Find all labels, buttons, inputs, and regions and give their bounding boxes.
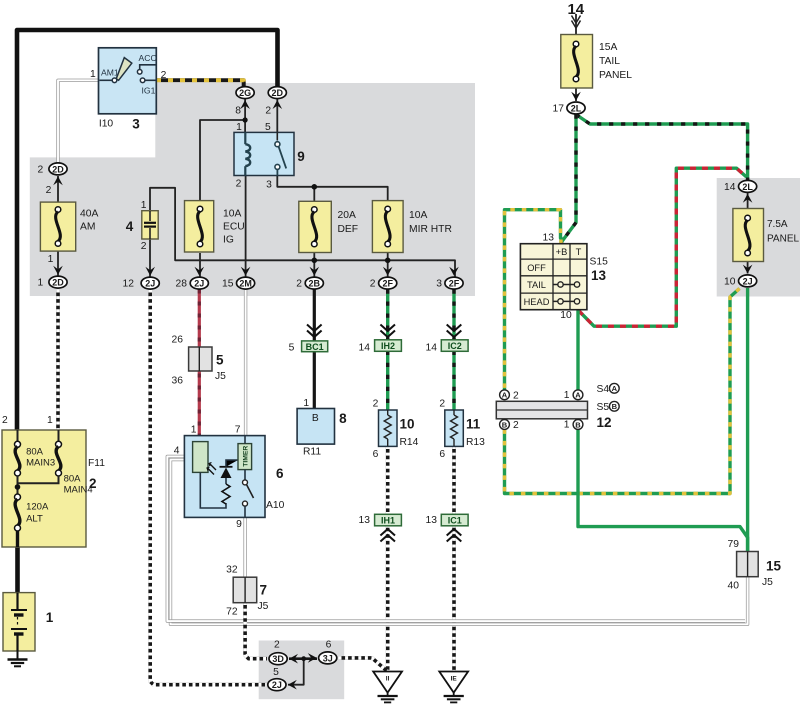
relay comp8 R11 (297, 409, 334, 445)
svg-text:4: 4 (126, 219, 134, 234)
svg-text:17: 17 (553, 104, 565, 115)
fusible link ALT (15, 494, 21, 500)
svg-text:2: 2 (296, 279, 302, 290)
wire green-red switch pin10 to 14-2L (579, 168, 747, 326)
svg-text:11: 11 (466, 417, 481, 432)
svg-text:5: 5 (289, 342, 295, 353)
wire relay pin2 to 2M (245, 176, 247, 277)
TIMER box (238, 444, 252, 470)
gray panel bottom (259, 641, 345, 700)
illumination comp12 (496, 390, 587, 430)
wire 2D upper to AM fuse (57, 176, 59, 203)
svg-text:2: 2 (161, 70, 167, 81)
svg-text:120A: 120A (26, 502, 49, 513)
svg-text:2: 2 (265, 106, 271, 117)
svg-text:AM1: AM1 (101, 68, 119, 78)
svg-text:IE: IE (451, 676, 458, 683)
svg-text:6: 6 (276, 466, 284, 481)
svg-text:IH2: IH2 (381, 341, 395, 351)
wire TAIL fuse to 17-2L (575, 88, 577, 101)
svg-text:B: B (502, 420, 508, 429)
svg-text:2M: 2M (239, 279, 252, 289)
wire white 15-2M to comp6 pin7 (244, 290, 247, 437)
svg-text:R13: R13 (466, 437, 485, 448)
svg-text:3: 3 (266, 180, 272, 191)
svg-text:F11: F11 (88, 458, 105, 469)
svg-text:R11: R11 (303, 447, 321, 458)
arrow down into 12-2J (145, 267, 155, 276)
resistor comp10 R14 (379, 410, 398, 446)
svg-text:PANEL: PANEL (767, 234, 799, 245)
light switch table 13 (520, 244, 587, 310)
legend S5 circled B (609, 401, 619, 411)
wire 14-2L arrow stub to PANEL fuse (747, 193, 749, 209)
key wedge (116, 58, 132, 81)
arrow up into 2D left (53, 176, 63, 185)
svg-text:A: A (575, 391, 581, 400)
svg-text:40A: 40A (80, 209, 98, 220)
svg-text:A: A (612, 384, 618, 393)
connector J5 comp7 (233, 577, 257, 603)
arrow up into 2G (240, 100, 250, 109)
svg-text:13: 13 (591, 268, 607, 283)
oval 2J 10 (739, 275, 757, 287)
svg-text:+B: +B (556, 247, 568, 257)
svg-text:1: 1 (38, 278, 44, 289)
fuse 7.5A PANEL (733, 209, 764, 262)
svg-text:10: 10 (560, 310, 572, 321)
svg-text:15A: 15A (599, 42, 617, 53)
svg-text:12: 12 (597, 415, 612, 430)
wire ECU IG bottom to 28-2J (199, 253, 201, 277)
oval 2D left lower (49, 276, 67, 288)
svg-text:12: 12 (123, 279, 135, 290)
oval 2D top (268, 87, 286, 99)
fusible link MAIN3 (15, 441, 21, 447)
wire white comp15 pin40 long bottom (171, 460, 748, 625)
svg-text:10: 10 (724, 277, 736, 288)
wire green-black IC2 to R13 (452, 351, 455, 411)
wire 2D to relay pin5 (276, 99, 278, 133)
arrow down into 2-2B (310, 267, 320, 276)
wire striped comp7 to 3D (245, 602, 267, 659)
wire yellow-green comp12 B2 to 10-2J (505, 289, 740, 494)
wire comp4 pin1 riser (150, 188, 455, 277)
svg-text:TAIL: TAIL (527, 280, 546, 290)
svg-text:9: 9 (297, 149, 305, 164)
arrow down into 17-2L (571, 92, 581, 101)
wire black-white R14 to IH1 (386, 446, 390, 515)
svg-text:5: 5 (216, 353, 224, 368)
wire green 10-2J to comp15 pin79 (746, 288, 749, 552)
junction dot 2G-relay (243, 117, 248, 122)
arrow down into 15-2M (241, 267, 251, 276)
svg-text:J5: J5 (258, 601, 269, 612)
svg-text:OFF: OFF (527, 263, 546, 273)
svg-text:S4: S4 (597, 384, 610, 395)
wire comp4 pin2 to 12-2J (149, 239, 151, 277)
svg-text:2: 2 (38, 165, 44, 176)
ground IE (439, 672, 468, 703)
svg-text:2: 2 (513, 420, 519, 431)
wire DEF bottom to 2B (313, 253, 315, 277)
wire black-white IH1 to ground II (386, 525, 390, 672)
oval 2F (379, 277, 397, 289)
gray panel main (30, 83, 475, 296)
svg-text:15: 15 (766, 559, 782, 574)
svg-text:A: A (502, 391, 508, 400)
junction dot bottom 3D-3J (301, 656, 306, 661)
svg-text:80A: 80A (64, 474, 82, 485)
relay comp6 A10 (184, 436, 265, 518)
LED (225, 478, 227, 484)
svg-text:2: 2 (89, 476, 97, 491)
svg-text:BC1: BC1 (306, 342, 324, 352)
svg-text:3D: 3D (272, 654, 284, 664)
svg-text:6: 6 (326, 640, 332, 651)
svg-text:13: 13 (426, 515, 438, 526)
svg-text:2D: 2D (52, 164, 64, 174)
svg-text:DEF: DEF (338, 224, 359, 235)
oval 2L 17 (567, 102, 585, 114)
oval 2M (237, 277, 255, 289)
connector J5 comp5 (189, 347, 212, 371)
wire thick F11 to battery (15, 530, 20, 594)
wire yellow-green switch pin13 branch (505, 210, 562, 390)
svg-text:IG: IG (223, 235, 234, 246)
fusible link MAIN4 (56, 441, 62, 447)
wire green-black 3-2F to IC2 (452, 290, 455, 341)
oval 3D (269, 653, 287, 665)
svg-text:MIR HTR: MIR HTR (409, 224, 452, 235)
svg-text:MAIN3: MAIN3 (26, 458, 55, 469)
svg-text:8: 8 (339, 411, 347, 426)
wire DEF fuse top stub (313, 187, 315, 202)
svg-text:1: 1 (90, 69, 96, 80)
label box IC1 (441, 514, 468, 526)
oval 2J comp4 (141, 277, 159, 289)
wire striped 1-2D to F11 pin1 (56, 290, 60, 432)
junction dot DEF top (312, 184, 318, 190)
svg-text:28: 28 (176, 279, 188, 290)
svg-text:J5: J5 (762, 577, 773, 588)
oval 3J (319, 652, 337, 664)
oval 2F second (445, 277, 463, 289)
svg-text:A10: A10 (266, 500, 285, 511)
svg-text:2: 2 (370, 279, 376, 290)
wire black-yellow from I10 IG1 to 2G (156, 80, 244, 86)
svg-text:2J: 2J (145, 279, 155, 289)
arrow up into 14-2L (743, 194, 753, 203)
svg-text:1: 1 (564, 420, 570, 431)
svg-text:6: 6 (439, 449, 445, 460)
wire black-white R13 to IC1 (452, 446, 456, 515)
svg-text:TAIL: TAIL (599, 56, 620, 67)
svg-text:3: 3 (132, 117, 140, 132)
svg-text:6: 6 (373, 449, 379, 460)
svg-text:40: 40 (728, 581, 740, 592)
ground II (373, 672, 402, 703)
svg-text:2: 2 (513, 390, 519, 401)
svg-text:R14: R14 (400, 437, 419, 448)
wire striped 3J to ground II (339, 658, 388, 672)
svg-text:S5: S5 (597, 402, 610, 413)
wire 14 arrow lead to TAIL fuse (575, 14, 577, 35)
gray panel right (717, 178, 800, 297)
svg-text:5: 5 (273, 667, 279, 678)
svg-text:1: 1 (303, 398, 309, 409)
label box BC1 (302, 341, 328, 352)
svg-text:IC2: IC2 (448, 341, 462, 351)
wire PANEL fuse to 10-2J (747, 261, 749, 274)
chevrons above BC1 (307, 325, 322, 338)
svg-text:2B: 2B (309, 279, 321, 289)
wire white from I10 AM1 to 2D (58, 80, 100, 162)
svg-text:72: 72 (226, 607, 238, 618)
wire 3D-3J link (289, 657, 317, 660)
svg-text:S15: S15 (590, 257, 609, 268)
label box IH2 (375, 340, 402, 352)
arrow down into 2-2F (383, 267, 393, 276)
svg-text:8: 8 (235, 106, 241, 117)
relay 9 (234, 132, 294, 175)
wire green-black 17-2L to switch pin13 (562, 115, 577, 245)
svg-text:14: 14 (359, 343, 371, 354)
svg-text:14: 14 (426, 343, 438, 354)
wire striped 12-2J down to bottom 2J (150, 290, 267, 685)
wire green-black 17-2L to 14-2L (576, 115, 748, 181)
svg-text:2: 2 (373, 399, 379, 410)
svg-text:2F: 2F (449, 279, 460, 289)
arrow left into 2J bottom (288, 680, 297, 690)
oval 2J ECU (190, 277, 208, 289)
arrow down into 28-2J (195, 267, 205, 276)
resistor comp11 R13 (445, 410, 464, 446)
junction dot MIR bottom (385, 258, 391, 264)
svg-text:J5: J5 (215, 371, 226, 382)
resistor zigzag (222, 484, 230, 504)
oval 2D left upper (49, 163, 67, 175)
arrow feathers at 14 top (572, 16, 581, 29)
svg-text:9: 9 (236, 519, 242, 530)
svg-text:T: T (576, 247, 582, 257)
svg-text:15: 15 (222, 279, 234, 290)
wire black-white IC1 to ground IE (452, 525, 456, 672)
svg-text:IC1: IC1 (448, 516, 462, 526)
svg-text:IH1: IH1 (381, 516, 395, 526)
wire green-black IH2 to R14 (386, 351, 389, 411)
svg-text:14: 14 (724, 182, 736, 193)
svg-text:3J: 3J (323, 653, 333, 663)
wire 2G to relay pin1 (244, 99, 246, 133)
svg-text:2: 2 (236, 179, 242, 190)
svg-text:7: 7 (235, 425, 241, 436)
junction dot DEF bottom (312, 258, 318, 264)
capacitor comp4 (142, 211, 158, 239)
fuse 10A MIR HTR (372, 201, 403, 253)
ground battery (8, 651, 28, 666)
svg-text:79: 79 (728, 539, 740, 550)
svg-text:B: B (575, 420, 581, 429)
fuse 40A AM (40, 202, 75, 251)
svg-text:10A: 10A (223, 209, 241, 220)
svg-text:1: 1 (46, 610, 54, 625)
wire white comp6 pin4 upper (167, 456, 745, 621)
svg-text:B: B (612, 402, 618, 411)
svg-text:HEAD: HEAD (524, 297, 550, 307)
svg-text:26: 26 (172, 335, 184, 346)
svg-text:1: 1 (48, 254, 54, 265)
arrow down into 10-2J (743, 265, 753, 274)
svg-text:2J: 2J (272, 680, 282, 690)
svg-text:20A: 20A (338, 210, 356, 221)
svg-text:2J: 2J (194, 279, 204, 289)
svg-text:2G: 2G (239, 88, 251, 98)
ignition switch I10 (99, 48, 157, 114)
svg-text:II: II (386, 676, 390, 683)
chevrons below IC1 (447, 529, 462, 542)
wire green switch pin10 to comp12 A1 (576, 311, 579, 391)
svg-text:2D: 2D (272, 88, 284, 98)
oval 2G (236, 87, 254, 99)
svg-text:7.5A: 7.5A (767, 219, 788, 230)
wire green comp12 B1 to comp15 (578, 429, 748, 552)
wire thick battery frame top-left (17, 30, 278, 431)
svg-text:B: B (312, 413, 319, 424)
svg-text:ALT: ALT (26, 514, 43, 525)
svg-text:3: 3 (436, 279, 442, 290)
svg-text:10: 10 (400, 417, 415, 432)
chevrons above IC2 (447, 325, 462, 338)
wire AM fuse bottom to 1-2D (57, 251, 59, 276)
svg-text:1: 1 (141, 200, 147, 211)
svg-text:7: 7 (260, 583, 268, 598)
svg-text:2: 2 (141, 241, 147, 252)
label box IC2 (441, 340, 468, 352)
svg-text:80A: 80A (26, 447, 44, 458)
wire dot to 2J arrow (288, 659, 304, 685)
oval 2L 14 (739, 180, 757, 192)
fusible link box F11 (2, 430, 86, 547)
svg-text:2D: 2D (52, 278, 64, 288)
svg-text:1: 1 (564, 390, 570, 401)
svg-text:2: 2 (439, 399, 445, 410)
svg-text:PANEL: PANEL (599, 70, 632, 81)
svg-text:36: 36 (172, 376, 184, 387)
oval 2J bottom (268, 679, 286, 691)
svg-text:TIMER: TIMER (242, 446, 249, 467)
svg-text:4: 4 (174, 446, 180, 457)
wire relay pin3 to DEF and MIR HTR (277, 176, 387, 202)
wire black 2B to BC1 to comp8 (313, 290, 316, 342)
svg-text:2J: 2J (743, 276, 753, 286)
svg-text:2: 2 (274, 640, 280, 651)
svg-text:14: 14 (567, 1, 584, 18)
svg-text:1: 1 (47, 415, 53, 426)
arrow right into 3J (308, 653, 317, 663)
oval 2B (305, 277, 323, 289)
svg-text:5: 5 (265, 122, 271, 133)
wire MIR HTR bottom to 2F (387, 253, 389, 277)
svg-text:2F: 2F (382, 279, 393, 289)
battery comp1 (3, 593, 35, 651)
svg-text:ECU: ECU (223, 222, 245, 233)
svg-text:1: 1 (191, 425, 197, 436)
chevrons below IH1 (380, 529, 395, 542)
wire red 28-2J to comp6 pin1 (198, 290, 201, 443)
wire green-black 2F to IH2 (386, 290, 389, 341)
arrow down into 1-2D (53, 266, 63, 275)
svg-text:10A: 10A (409, 210, 427, 221)
label box IH1 (375, 514, 402, 526)
svg-text:I10: I10 (99, 119, 114, 130)
arrow down into 3-2F (449, 267, 459, 276)
arrow left into 3D (289, 654, 298, 664)
svg-text:IG1: IG1 (142, 86, 156, 96)
svg-text:AM: AM (80, 222, 95, 233)
svg-text:2: 2 (2, 415, 8, 426)
chevrons above IH2 (380, 325, 395, 338)
wire white comp6 pin9 to comp7 (243, 517, 246, 578)
legend S4 circled A (609, 383, 619, 393)
svg-text:2: 2 (46, 185, 52, 196)
svg-text:13: 13 (359, 515, 371, 526)
fuse 10A ECU IG (185, 201, 214, 252)
svg-text:1: 1 (236, 122, 242, 133)
svg-text:ACC: ACC (139, 53, 157, 63)
arrow up into 2D top (273, 100, 283, 109)
svg-text:2L: 2L (571, 103, 582, 113)
fuse 15A TAIL PANEL (561, 35, 593, 89)
connector J5 comp15 (737, 552, 759, 577)
svg-text:32: 32 (226, 565, 238, 576)
fuse 20A DEF (299, 201, 332, 252)
svg-text:2L: 2L (742, 182, 753, 192)
wire 2G branch to ECU IG fuse (200, 120, 245, 201)
svg-text:13: 13 (543, 233, 555, 244)
